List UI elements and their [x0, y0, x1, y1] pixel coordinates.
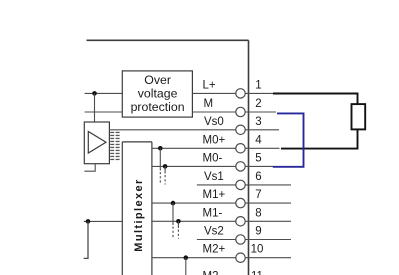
node dot M2+ [184, 255, 189, 260]
terminal 10 circle [236, 253, 245, 262]
svg-text:11: 11 [251, 270, 263, 275]
svg-text:10: 10 [251, 244, 264, 256]
svg-text:Over: Over [144, 73, 171, 87]
svg-text:6: 6 [255, 171, 261, 183]
svg-text:5: 5 [255, 152, 261, 164]
wire M1- drop [177, 221, 179, 228]
amplifier box A1 [84, 122, 109, 164]
node dot M0- [163, 164, 168, 169]
node dot M1- [176, 219, 181, 224]
over voltage protection box [122, 71, 192, 117]
terminal 5 circle [236, 162, 245, 171]
svg-text:L+: L+ [203, 79, 216, 91]
wire row8 M1- [152, 220, 291, 222]
node junction dot on common return [86, 219, 91, 224]
amplifier triangle [88, 132, 106, 154]
svg-text:Vs1: Vs1 [204, 171, 224, 183]
svg-text:M0-: M0- [203, 152, 223, 164]
terminal 9 circle [236, 235, 245, 244]
svg-text:voltage: voltage [138, 87, 178, 101]
isolation barrier hatch between amplifier and multiplexer [110, 132, 119, 160]
wire row7 M1+ [152, 202, 291, 204]
svg-text:1: 1 [255, 79, 261, 91]
svg-text:2: 2 [255, 98, 261, 110]
wire row5 M0- [152, 165, 273, 167]
svg-text:Vs0: Vs0 [204, 116, 224, 128]
svg-text:8: 8 [255, 207, 261, 219]
wire row9 Vs2 [197, 239, 291, 241]
wire row1 L+ left segment [85, 92, 123, 94]
svg-text:M: M [204, 98, 214, 110]
multiplexer box [122, 142, 152, 275]
terminal 1 circle [236, 89, 245, 98]
wire from dot down with foot [84, 221, 88, 258]
load resistor R [352, 104, 366, 129]
module top edge [87, 39, 249, 41]
svg-text:M1-: M1- [203, 207, 223, 219]
wire from L+ dot down to amplifier box [94, 93, 96, 122]
svg-text:protection: protection [131, 100, 185, 114]
terminal block vertical line [248, 40, 250, 275]
wire row1 L+ from OVP to terminal 1 [192, 92, 276, 94]
svg-text:M0+: M0+ [203, 134, 226, 146]
amplifier output wire below box [84, 164, 95, 172]
node junction dot on L+ [92, 91, 97, 96]
svg-text:3: 3 [255, 116, 261, 128]
node dot M1+ [171, 201, 176, 206]
external blue wire from terminal 2 to terminal 5 [273, 113, 304, 166]
wire row4 M0+ [152, 147, 280, 149]
svg-text:M1+: M1+ [203, 189, 226, 201]
wire row6 Vs1 [197, 184, 291, 186]
svg-text:4: 4 [255, 134, 262, 146]
terminal 4 circle [236, 144, 245, 153]
terminal 8 circle [236, 217, 245, 226]
svg-text:M2+: M2+ [203, 244, 226, 256]
terminal 6 circle [236, 180, 245, 189]
wire M2+ drop [185, 258, 187, 275]
terminal 3 circle [236, 125, 245, 134]
svg-text:M2-: M2- [203, 270, 223, 275]
terminal 7 circle [236, 198, 245, 207]
wire M0- drop [164, 166, 166, 173]
wire row10 M2+ [152, 257, 291, 259]
terminal 2 circle [236, 107, 245, 116]
svg-text:7: 7 [255, 189, 261, 201]
wire common return to multiplexer [84, 220, 123, 222]
wire row2 M from OVP to terminal 2 [192, 111, 276, 113]
svg-text:9: 9 [255, 226, 261, 238]
wire M1+ drop [172, 203, 174, 225]
wire M0+ drop [159, 148, 161, 170]
wire row2 M left segment [85, 111, 123, 113]
node dot M0+ [158, 146, 163, 151]
svg-text:Vs2: Vs2 [204, 226, 224, 238]
external black wire from resistor bottom to terminal 4 [281, 129, 358, 148]
svg-text:Multiplexer: Multiplexer [133, 178, 145, 251]
wire row3 Vs0 [109, 129, 279, 131]
external black wire from terminal 1 to resistor top [273, 94, 358, 105]
